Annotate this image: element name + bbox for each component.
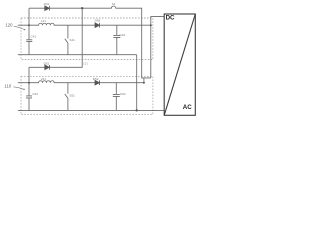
svg-text:C41: C41	[31, 35, 37, 39]
svg-text:C42: C42	[120, 33, 126, 37]
svg-text:110: 110	[4, 83, 11, 88]
svg-text:L51: L51	[41, 77, 46, 81]
svg-text:C52: C52	[120, 92, 126, 96]
svg-text:S41: S41	[69, 38, 75, 42]
svg-text:D51: D51	[44, 61, 50, 65]
svg-text:C51: C51	[32, 92, 38, 96]
svg-text:D52: D52	[93, 77, 99, 81]
svg-text:L41: L41	[41, 19, 46, 23]
svg-text:S1: S1	[112, 2, 116, 6]
svg-text:151: 151	[83, 61, 88, 65]
svg-text:AC: AC	[183, 104, 192, 111]
svg-text:S51: S51	[69, 94, 75, 98]
svg-text:D42: D42	[95, 19, 101, 23]
svg-text:D41: D41	[44, 2, 50, 6]
svg-text:120: 120	[5, 23, 13, 28]
svg-text:DC: DC	[166, 14, 175, 21]
